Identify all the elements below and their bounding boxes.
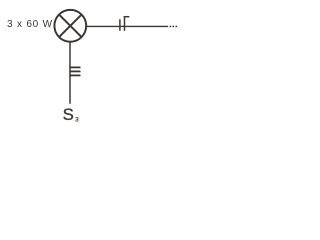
- svg-text:3: 3: [75, 117, 79, 124]
- svg-text:S: S: [63, 105, 74, 124]
- svg-text:3 x 60 W: 3 x 60 W: [7, 19, 53, 30]
